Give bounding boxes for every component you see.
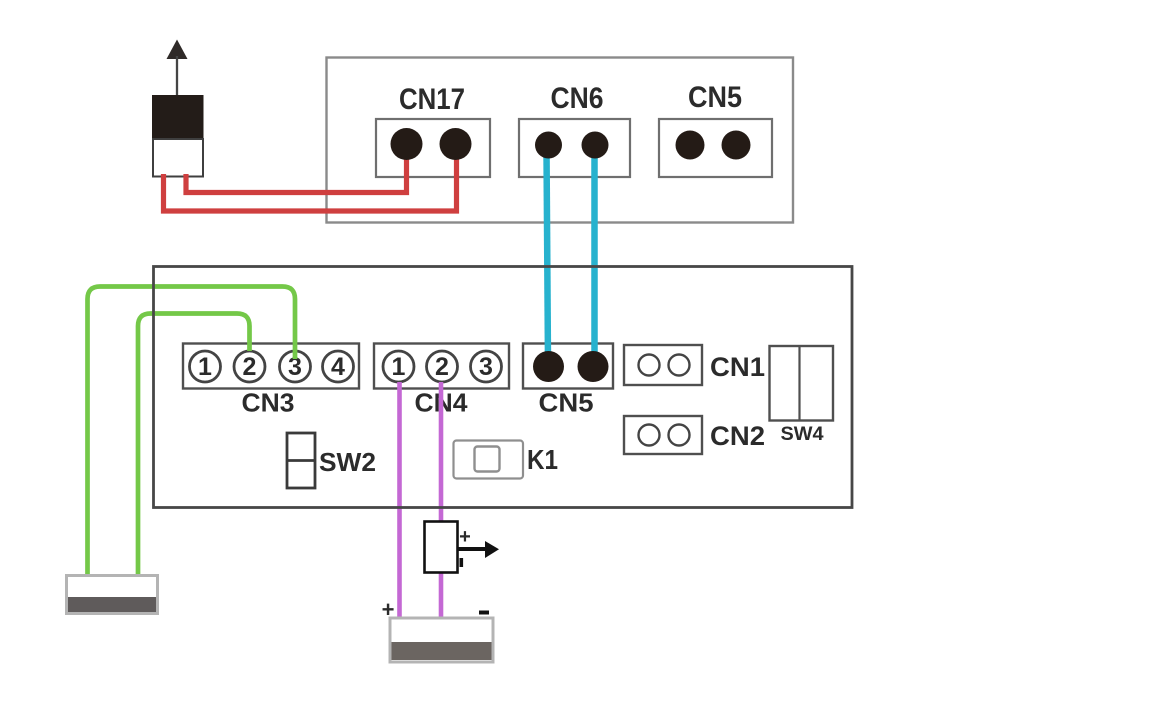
- pad CN5 lower pin 2: [578, 351, 609, 382]
- svg-text:CN2: CN2: [710, 421, 765, 451]
- pad CN5 lower pin 1: [533, 351, 564, 382]
- label - (battery): [479, 611, 489, 615]
- sensor (bottom-left component): [67, 576, 158, 614]
- svg-text:K1: K1: [527, 444, 558, 475]
- lower board border: [154, 267, 853, 508]
- arrow (output): [458, 541, 499, 558]
- connector CN1: [624, 345, 702, 385]
- pad CN5 top pin 1: [676, 131, 705, 160]
- CN4 pin 1: [383, 351, 414, 382]
- wire purple left (CN4 pin1 to battery +): [397, 382, 402, 617]
- svg-text:4: 4: [331, 353, 345, 381]
- CN3 pin 4: [323, 351, 354, 382]
- CN4 pin 3: [471, 351, 502, 382]
- svg-text:SW2: SW2: [319, 447, 376, 477]
- svg-text:CN3: CN3: [242, 388, 295, 418]
- relay K1: [454, 441, 524, 479]
- top board outline: [327, 58, 794, 223]
- lower board fill: [154, 267, 853, 508]
- wire green inner (CN3 pin2 to sensor): [138, 314, 250, 575]
- svg-text:2: 2: [243, 353, 257, 381]
- CN3 pin 2: [234, 351, 265, 382]
- connector CN6 box: [519, 119, 630, 177]
- CN3 pin 1: [190, 351, 221, 382]
- connector CN5 (lower board) box: [523, 344, 613, 389]
- CN3 pin 3: [280, 351, 311, 382]
- wire cyan right (CN6 pin2 to lower CN5 pin2): [591, 150, 598, 362]
- svg-text:+: +: [459, 526, 471, 548]
- svg-text:CN5: CN5: [688, 81, 742, 114]
- svg-text:2: 2: [435, 353, 449, 381]
- switch SW2: [287, 433, 315, 488]
- connector CN5 (top board) box: [659, 119, 772, 177]
- wire red B (antenna to CN17 pin 2): [164, 150, 457, 211]
- pad CN17 pin 2: [440, 128, 472, 160]
- wire green outer (CN3 pin3 to sensor): [88, 287, 296, 575]
- pad CN5 top pin 2: [722, 131, 751, 160]
- pad CN6 pin 1: [535, 132, 562, 159]
- svg-text:CN17: CN17: [399, 83, 465, 116]
- svg-text:3: 3: [479, 353, 493, 381]
- connector CN3 box: [183, 344, 359, 389]
- battery: [390, 618, 493, 662]
- connector CN4 box: [374, 344, 509, 389]
- svg-text:CN5: CN5: [539, 388, 594, 418]
- wire cyan left (CN6 pin1 to lower CN5 pin1): [547, 150, 549, 362]
- pad CN17 pin 1: [391, 128, 423, 160]
- wire purple right (CN4 pin2 to battery -): [439, 382, 444, 617]
- svg-text:1: 1: [198, 353, 212, 381]
- svg-text:1: 1: [392, 353, 406, 381]
- svg-text:CN6: CN6: [551, 82, 604, 115]
- label - (output, tick): [460, 558, 464, 567]
- switch SW4: [770, 346, 834, 421]
- antenna ANT1: [152, 40, 204, 177]
- output module box: [425, 522, 458, 573]
- svg-text:SW4: SW4: [781, 424, 824, 445]
- connector CN17 box: [376, 119, 490, 177]
- connector CN2: [624, 416, 702, 454]
- pad CN6 pin 2: [582, 132, 609, 159]
- CN4 pin 2: [427, 351, 458, 382]
- svg-text:CN1: CN1: [710, 352, 765, 382]
- wire red A (antenna to CN17 pin 1): [186, 150, 407, 193]
